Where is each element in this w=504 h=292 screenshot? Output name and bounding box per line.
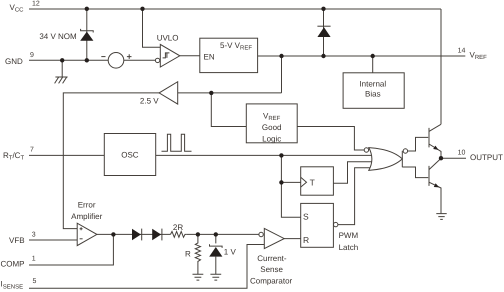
wire VCC rail drop to output transistor collector <box>440 9 442 124</box>
svg-text:OUTPUT: OUTPUT <box>470 153 503 162</box>
zener diode 34 V NOM <box>81 29 94 33</box>
NOR output bubble to upper driver <box>403 149 407 153</box>
wire PWM latch output to NOR gate <box>338 168 374 225</box>
wire 2R to comparator input <box>186 233 259 235</box>
diode D2 error amp output <box>132 229 141 240</box>
svg-text:Latch: Latch <box>339 243 359 252</box>
svg-text:12: 12 <box>32 1 40 8</box>
wire OSC clock output to NOR gate <box>156 154 374 156</box>
wire VREF output rail to pin 14 <box>258 55 466 57</box>
node VCC-diode junction <box>321 7 325 11</box>
svg-text:Logic: Logic <box>262 134 281 143</box>
clock edge glyph <box>301 177 307 187</box>
node 2R-R junction <box>196 232 200 236</box>
wire UVLO output to 5-V VREF EN <box>180 55 200 57</box>
minus sign <box>80 238 83 240</box>
block OSC <box>104 134 155 176</box>
wire T flip-flop output to NOR gate <box>333 162 374 184</box>
wire RT/CT pin to OSC <box>29 154 104 156</box>
wire node down to PWM latch S input <box>281 182 300 217</box>
clock pulse waveform <box>162 134 192 151</box>
wire GND rail right segment to UVLO inverting input <box>124 59 156 61</box>
svg-text:Sense: Sense <box>260 265 283 274</box>
wire 2.5V buffer input line <box>178 92 282 94</box>
transistor Q2 lower output driver <box>428 166 430 186</box>
svg-text:2.5 V: 2.5 V <box>140 97 159 106</box>
PWM latch output bubble <box>334 222 338 226</box>
wire GND rail left segment <box>29 59 108 61</box>
op-amp 2.5V reference buffer <box>159 82 178 104</box>
op-amp current-sense comparator <box>264 228 284 248</box>
svg-text:9: 9 <box>30 52 34 59</box>
node VREF-2.5V junction <box>279 54 283 58</box>
diode D3 error amp output <box>152 229 161 240</box>
block 5-V VREF regulator <box>200 38 258 72</box>
node error amp output junction <box>111 232 115 236</box>
wire VREF good logic output to NOR gate inverted input <box>297 127 364 151</box>
wire error amp output line to 2R <box>97 233 171 235</box>
svg-text:Good: Good <box>262 123 282 132</box>
svg-text:PWM: PWM <box>339 231 359 240</box>
hysteresis glyph <box>163 53 170 58</box>
wire VCC branch to UVLO noninverting input <box>143 9 161 47</box>
wire ground drop <box>61 60 63 77</box>
wire output emitter node to OUTPUT pin <box>441 157 466 159</box>
svg-text:RT/CT: RT/CT <box>3 151 24 162</box>
resistor 2R <box>171 232 187 238</box>
UVLO input bubble <box>155 58 159 62</box>
wire node to VREF good logic input <box>211 93 246 127</box>
zener diode 1V clamp <box>210 244 223 248</box>
gate NOR <box>369 148 403 171</box>
svg-text:OSC: OSC <box>121 150 139 159</box>
wire gate to lower transistor base <box>402 167 428 178</box>
block Internal Bias <box>343 73 404 109</box>
svg-text:T: T <box>310 178 315 188</box>
svg-text:3: 3 <box>32 232 36 239</box>
svg-text:1: 1 <box>32 256 36 263</box>
node GND-zener junction <box>85 58 89 62</box>
svg-text:S: S <box>303 211 309 221</box>
gate output bus <box>401 151 403 167</box>
svg-text:Internal: Internal <box>359 80 386 89</box>
node VCC-UVLO junction <box>140 7 144 11</box>
wire VFB pin to error amp inverting input <box>29 239 77 241</box>
wire zener VZ branch <box>86 9 88 60</box>
op-amp error amplifier <box>77 223 97 245</box>
node output emitter junction <box>439 156 443 160</box>
wire 1V zener branch top <box>215 234 217 243</box>
svg-text:1 V: 1 V <box>224 248 237 257</box>
wire 2.5V buffer output to error amp + input <box>63 93 159 229</box>
block T flip-flop <box>301 167 334 195</box>
svg-text:ISENSE: ISENSE <box>1 280 24 291</box>
chassis ground at GND pin <box>55 77 68 83</box>
offset source circle <box>108 53 124 69</box>
svg-text:VREF: VREF <box>470 51 488 62</box>
svg-text:Amplifier: Amplifier <box>71 212 102 221</box>
diode D1 VCC to VREF <box>317 25 330 27</box>
svg-text:10: 10 <box>458 150 466 157</box>
node VREF-bias junction <box>371 54 375 58</box>
ground below Q2 emitter <box>436 214 446 220</box>
svg-text:COMP: COMP <box>1 260 25 269</box>
ground below R <box>193 274 204 280</box>
svg-text:EN: EN <box>204 53 215 62</box>
minus sign <box>101 56 105 58</box>
svg-text:R: R <box>303 235 309 245</box>
svg-text:VFB: VFB <box>9 236 25 245</box>
svg-text:7: 7 <box>30 147 34 154</box>
node VREF-diode junction <box>321 54 325 58</box>
plus sign <box>80 227 83 230</box>
node GND-ground junction <box>60 58 64 62</box>
svg-text:GND: GND <box>5 57 23 66</box>
svg-text:UVLO: UVLO <box>157 34 179 43</box>
svg-text:5: 5 <box>33 278 37 285</box>
wire ISENSE pin to comparator lower input <box>29 245 264 289</box>
svg-text:VCC: VCC <box>10 3 25 14</box>
node clock-T junction <box>279 153 283 157</box>
plus sign <box>127 54 132 59</box>
node T-S junction <box>279 180 283 184</box>
resistor R <box>195 234 200 274</box>
svg-text:34 V NOM: 34 V NOM <box>39 32 77 41</box>
svg-text:Error: Error <box>78 201 96 210</box>
wire COMP pin up to error amp output <box>29 234 113 265</box>
wire internal bias connector <box>372 56 374 73</box>
wire current-sense comparator output to PWM latch R input <box>284 238 301 240</box>
NOR inverted input bubble <box>364 148 368 152</box>
svg-text:Current-: Current- <box>257 254 287 263</box>
ground below 1V zener <box>210 274 221 280</box>
wire clock node down to T flip-flop input <box>281 155 300 182</box>
node 2.5V-goodlogic junction <box>209 91 213 95</box>
comparator input bubble <box>259 232 263 236</box>
block VREF Good Logic <box>246 104 297 143</box>
wire VCC top rail <box>29 8 441 10</box>
op-amp UVLO comparator <box>160 44 180 67</box>
transistor Q1 upper output driver <box>428 128 430 147</box>
svg-text:2R: 2R <box>173 223 183 232</box>
svg-text:Bias: Bias <box>365 90 381 99</box>
block PWM latch <box>301 203 334 247</box>
svg-text:14: 14 <box>458 48 466 55</box>
wire gate to upper transistor base <box>408 137 429 151</box>
node VCC-zener junction <box>85 7 89 11</box>
node 2R-zener junction <box>214 232 218 236</box>
wire diode D1 branch <box>323 9 325 56</box>
svg-text:R: R <box>185 249 191 258</box>
wire VREF node down to 2.5V reference line <box>281 56 283 93</box>
svg-text:Comparator: Comparator <box>250 277 293 286</box>
